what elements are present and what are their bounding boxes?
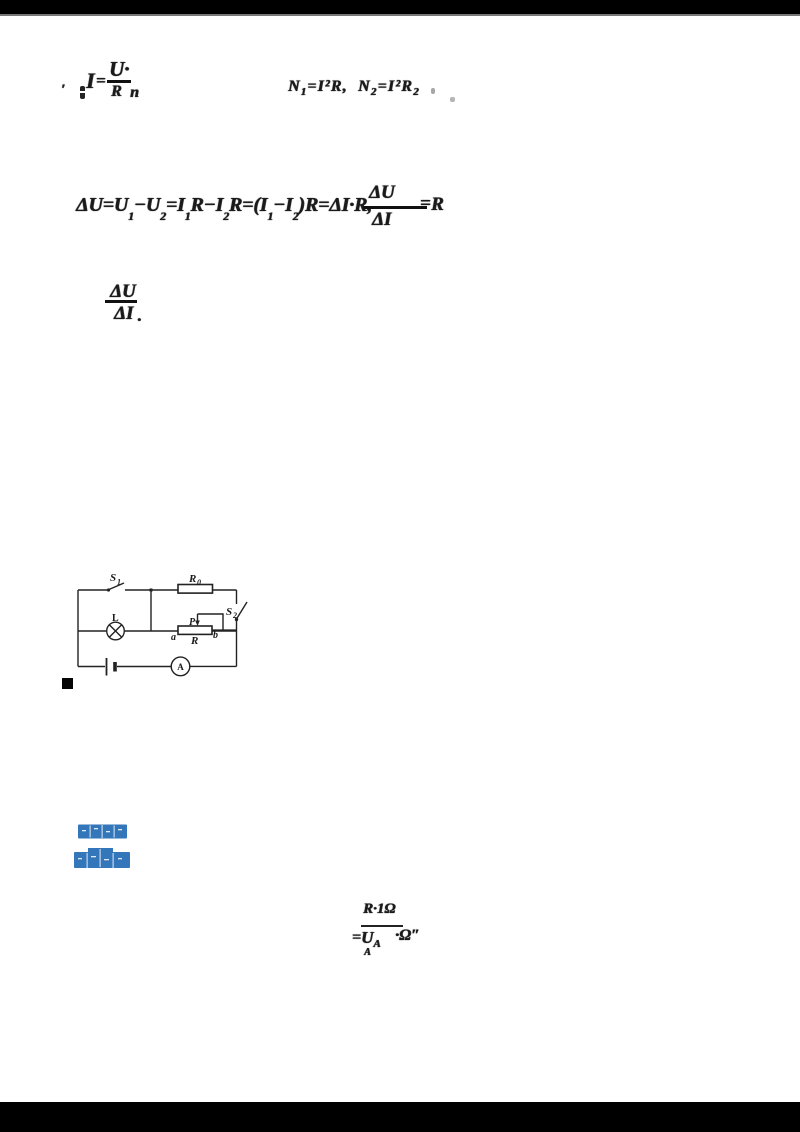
wire mid vertical	[150, 590, 152, 631]
formula 4: lone fraction ΔU/ΔI.	[110, 281, 136, 303]
lamp L	[107, 622, 125, 640]
wire right rail lower	[236, 620, 238, 667]
formula 2: center small equations	[288, 78, 348, 98]
wiper loop wire	[198, 614, 224, 630]
wire top left segment	[78, 589, 107, 591]
wire ammeter to right rail	[190, 665, 237, 667]
wire mid left segment	[78, 630, 107, 632]
svg-text:S: S	[110, 572, 116, 584]
wire bottom	[78, 666, 105, 668]
node junction mid	[150, 589, 153, 592]
scan blotch at circuit box corner	[62, 678, 73, 689]
formula 1: I = U/R fraction, top-left	[61, 82, 65, 99]
svg-text:S: S	[226, 606, 232, 618]
svg-text:1: 1	[117, 578, 121, 587]
svg-text:0: 0	[197, 578, 201, 587]
svg-text:R: R	[188, 573, 196, 585]
wire rheostat to right rail (thick)	[212, 629, 237, 631]
wire top right segment	[213, 589, 237, 591]
switch S2	[237, 602, 248, 619]
svg-text:P: P	[189, 617, 196, 628]
formula 3 fraction ΔU/ΔI = R	[369, 182, 395, 204]
wire right rail upper	[236, 590, 238, 604]
wire top mid segment	[125, 589, 178, 591]
wire left rail	[77, 590, 79, 667]
fraction bar 1	[107, 80, 131, 83]
blue answer tag 1	[74, 823, 134, 841]
battery cell	[106, 658, 108, 676]
circuit diagram	[62, 563, 253, 689]
svg-text:L: L	[112, 613, 119, 624]
bottom formula	[363, 901, 395, 918]
svg-text:b: b	[213, 630, 218, 641]
svg-text:2: 2	[232, 611, 237, 620]
blue answer tag 2	[70, 845, 134, 871]
bottom black bar	[0, 1102, 800, 1132]
faint specks	[431, 88, 435, 94]
formula 3: long derivation line	[76, 194, 372, 224]
wire mid between lamp and junction	[124, 630, 178, 632]
ammeter A	[171, 657, 190, 676]
svg-text:A: A	[177, 662, 184, 672]
switch S1	[107, 588, 110, 591]
wire battery to ammeter	[117, 666, 172, 668]
rheostat R	[178, 626, 212, 634]
resistor R0	[178, 585, 213, 594]
wiper P arrow	[197, 614, 199, 623]
svg-text:a: a	[171, 632, 176, 643]
top black bar	[0, 0, 800, 14]
svg-text:R: R	[190, 635, 198, 647]
